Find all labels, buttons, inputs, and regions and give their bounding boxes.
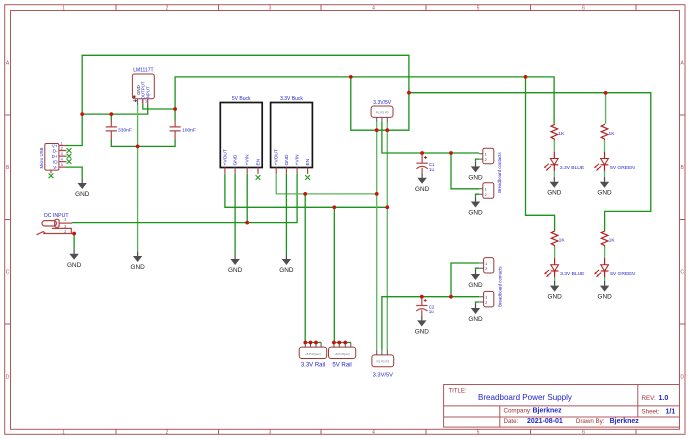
svg-text:+VOUT: +VOUT	[274, 149, 280, 165]
svg-text:2: 2	[166, 6, 169, 12]
wire contact 4 pin2 to ground	[476, 302, 480, 303]
svg-text:1/1: 1/1	[666, 408, 676, 415]
svg-text:D: D	[680, 375, 684, 381]
header 5V Rail	[329, 343, 356, 369]
svg-text:GND: GND	[284, 154, 290, 165]
junction (310.5,342.5)	[309, 341, 313, 345]
wire 3.3V rail bus	[305, 342, 321, 344]
connector breadboard contact 3	[479, 258, 494, 273]
junction (305.2,193.9)	[303, 192, 307, 196]
wire ground bus under caps	[111, 140, 175, 147]
header 3.3V Rail	[299, 343, 327, 369]
junction (605.6,92.9)	[604, 91, 608, 95]
svg-text:Date:: Date:	[504, 418, 519, 425]
LED 5V GREEN (bottom)	[594, 258, 635, 277]
wire 5V net y=92.7 to right and bottom-right LED column	[409, 93, 651, 231]
svg-text:+5 Pi P(pwr): +5 Pi P(pwr)	[334, 352, 350, 356]
svg-text:3.3V Buck: 3.3V Buck	[280, 96, 303, 102]
svg-text:2: 2	[485, 193, 487, 197]
wire bottom connector middle pin row	[382, 297, 479, 350]
junction (376.7,130.2)	[375, 128, 379, 132]
ground GND (contact 3)	[468, 269, 483, 289]
junction (451,296.7)	[449, 295, 453, 299]
svg-text:C: C	[6, 270, 10, 276]
svg-text:Breadboard contacts: Breadboard contacts	[497, 151, 502, 192]
junction (247.2,222.6)	[245, 221, 249, 225]
junction (350.8,76.9)	[349, 75, 353, 79]
svg-text:1: 1	[62, 430, 65, 436]
svg-text:V-: V-	[53, 165, 58, 170]
svg-text:1: 1	[485, 296, 487, 300]
wire LM1117T GND down	[137, 105, 139, 251]
svg-text:5V GREEN: 5V GREEN	[610, 165, 635, 171]
svg-text:2: 2	[141, 99, 143, 103]
svg-text:1: 1	[64, 218, 66, 222]
svg-text:4: 4	[372, 6, 375, 12]
svg-text:1: 1	[485, 188, 487, 192]
junction (376.7,193.9)	[375, 192, 379, 196]
svg-text:5V GREEN: 5V GREEN	[610, 271, 635, 277]
svg-text:GND: GND	[233, 154, 239, 165]
junction (175.1,109)	[173, 107, 177, 111]
svg-text:1u: 1u	[429, 167, 434, 172]
svg-text:LM1117T: LM1117T	[133, 68, 153, 74]
module 3.3V Buck	[271, 96, 313, 174]
svg-text:D: D	[6, 375, 10, 381]
no-connect X on 3.3V Buck EN	[305, 175, 310, 180]
connector Micro USB	[39, 141, 67, 174]
svg-text:2: 2	[485, 158, 487, 162]
connector breadboard contact 4	[479, 291, 494, 307]
ground GND (contact 2)	[468, 197, 483, 217]
svg-text:+VIN: +VIN	[295, 154, 301, 165]
wire 3.3V rail feed	[304, 194, 306, 343]
svg-text:1: 1	[62, 6, 65, 12]
no-connect X on USB ID	[67, 159, 72, 164]
svg-text:3.3V/5V: 3.3V/5V	[373, 100, 391, 106]
wire header middle pin to breadboard contacts row	[382, 122, 479, 153]
junction (422.1,153)	[420, 151, 424, 155]
ground GND (LED bottom left)	[547, 281, 562, 301]
ground GND (3.3V Buck)	[279, 254, 294, 274]
resistor 1K (bottom left)	[551, 230, 565, 246]
svg-text:Breadboard contacts: Breadboard contacts	[498, 266, 503, 307]
svg-text:P1 P2 P3: P1 P2 P3	[376, 111, 389, 115]
svg-text:5V Rail: 5V Rail	[332, 363, 351, 369]
wire header pin1 long vertical	[376, 122, 378, 350]
no-connect X on USB shield	[49, 173, 54, 178]
svg-text:3: 3	[269, 6, 272, 12]
regulator LM1117T	[132, 68, 154, 106]
header 3.3V/5V (bottom)	[372, 350, 394, 379]
svg-text:EN: EN	[305, 158, 311, 165]
no-connect X on 5V Buck EN	[256, 175, 261, 180]
connector DC INPUT barrel jack	[37, 213, 75, 235]
wire branch to top-right resistor	[605, 93, 607, 124]
ground GND (contact 1)	[468, 162, 483, 182]
junction (387.3,207.3)	[385, 205, 389, 209]
ground GND (contact 4)	[468, 303, 483, 323]
svg-text:ID: ID	[53, 159, 58, 164]
wire DC input to buck VIN pins	[72, 174, 297, 223]
svg-text:2021-08-01: 2021-08-01	[527, 418, 563, 425]
ground GND (DC input)	[67, 249, 82, 269]
label Breadboard contacts (top)	[497, 151, 502, 192]
svg-text:Breadboard Power Supply: Breadboard Power Supply	[478, 393, 572, 402]
svg-text:3.3V BLUE: 3.3V BLUE	[560, 271, 585, 277]
ground GND (LED top right)	[597, 177, 612, 197]
connector breadboard contact 2	[479, 183, 494, 199]
wire branch to bottom-left LED column	[526, 77, 555, 230]
ground GND (LED bottom right)	[597, 281, 612, 301]
ground GND (LM1117T)	[130, 251, 145, 271]
svg-text:2: 2	[166, 430, 169, 436]
capacitor C2 1u	[416, 297, 435, 316]
ground GND (LED top left)	[547, 177, 562, 197]
wire 5V buck VIN tap	[246, 174, 248, 223]
header 3.3V/5V (top)	[371, 100, 393, 122]
junction (387.3,130.2)	[385, 128, 389, 132]
svg-text:1K: 1K	[609, 131, 616, 137]
junction (451,153)	[449, 151, 453, 155]
wire resistor to LED gaps bottom pair	[555, 247, 605, 281]
junction (111.3,114.1)	[109, 112, 113, 116]
svg-text:Company:: Company:	[504, 408, 532, 415]
resistor 1K (top left)	[551, 124, 565, 140]
capacitor 100nF	[170, 121, 196, 140]
no-connect X on USB D-	[67, 148, 72, 153]
junction (525.5,76.9)	[524, 75, 528, 79]
svg-text:+VOUT: +VOUT	[222, 149, 228, 165]
svg-text:D-: D-	[53, 148, 58, 153]
svg-text:EN: EN	[256, 158, 262, 165]
wire contact 3 pin2 to ground	[476, 268, 480, 269]
svg-text:1u: 1u	[429, 309, 434, 314]
title block	[444, 385, 680, 428]
svg-text:1K: 1K	[609, 238, 616, 244]
junction (408.9,92.7)	[407, 91, 411, 95]
ground GND (C2)	[415, 316, 430, 336]
ground GND (5V Buck)	[228, 254, 243, 274]
svg-text:C: C	[680, 270, 684, 276]
wire output net top run to first LED column	[175, 77, 554, 124]
svg-text:Bjerknez: Bjerknez	[533, 408, 563, 415]
svg-text:330nF: 330nF	[118, 128, 132, 134]
ground GND (C1)	[415, 173, 430, 193]
svg-text:4: 4	[372, 430, 375, 436]
wire branch to contact 3	[451, 263, 479, 297]
svg-text:6: 6	[582, 430, 585, 436]
svg-text:REV:: REV:	[642, 395, 656, 402]
svg-text:1: 1	[485, 262, 487, 266]
svg-text:1.0: 1.0	[659, 395, 669, 402]
svg-text:5V Buck: 5V Buck	[232, 96, 251, 102]
wire 330nF top lead connection	[110, 114, 112, 120]
connector breadboard contact 1	[479, 148, 494, 164]
resistor 1K (top right)	[601, 124, 615, 140]
junction (345.3,342.5)	[343, 341, 347, 345]
no-connect X on USB D+	[67, 154, 72, 159]
LED 3.3V BLUE (bottom)	[544, 258, 585, 277]
svg-text:3: 3	[64, 225, 66, 229]
wire 5V buck GND	[234, 174, 236, 255]
svg-text:2: 2	[64, 230, 66, 234]
capacitor C1 1u	[416, 153, 435, 173]
wire 3.3V buck VOUT run	[276, 174, 377, 194]
svg-text:5: 5	[477, 6, 480, 12]
svg-text:Bjerknez: Bjerknez	[610, 418, 640, 425]
wire LM1117T OUTPUT elbow	[143, 105, 175, 110]
wire USB V- to ground	[66, 167, 83, 178]
svg-text:1K: 1K	[559, 238, 566, 244]
junction (421.8,296.7)	[420, 295, 424, 299]
wire resistor to LED gaps top pair	[554, 140, 604, 177]
module 5V Buck	[220, 96, 262, 174]
wire V+ input net: USB V+ up over to header right leg	[66, 55, 409, 145]
wire 5V buck VOUT run	[225, 174, 387, 207]
svg-text:3: 3	[269, 430, 272, 436]
svg-text:Sheet:: Sheet:	[642, 408, 660, 415]
junction (74.1,233.5)	[72, 232, 76, 236]
svg-text:3.3V/5V: 3.3V/5V	[373, 373, 393, 379]
label Breadboard contacts (bottom)	[498, 266, 503, 307]
svg-text:+5 Pi P(pwr): +5 Pi P(pwr)	[305, 352, 321, 356]
capacitor 330nF	[106, 121, 132, 140]
wire 5V rail feed	[333, 207, 335, 342]
wire branch to contact 2	[451, 153, 479, 189]
svg-text:100nF: 100nF	[182, 128, 196, 134]
svg-text:3: 3	[145, 99, 147, 103]
svg-text:P1 P2 P3: P1 P2 P3	[376, 360, 389, 364]
wire 5V rail bus	[334, 342, 351, 344]
junction (316,342.5)	[314, 341, 318, 345]
wire 3.3V buck GND	[285, 174, 287, 255]
junction (137.6,146.4)	[136, 145, 140, 149]
svg-text:5: 5	[477, 430, 480, 436]
svg-text:Micro USB: Micro USB	[39, 147, 44, 168]
wire header pin3 long vertical	[386, 122, 388, 350]
junction (82.2,114.1)	[80, 112, 84, 116]
svg-text:6: 6	[582, 6, 585, 12]
junction (333.9,342.5)	[332, 341, 336, 345]
LED 5V GREEN (top)	[594, 152, 635, 171]
ground GND (Micro USB)	[75, 178, 90, 198]
svg-text:2: 2	[485, 301, 487, 305]
wire DC jack sleeve to ground	[73, 234, 75, 250]
svg-text:3.3V Rail: 3.3V Rail	[301, 363, 325, 369]
svg-text:2: 2	[485, 267, 487, 271]
wire contact 2 pin2 to ground	[476, 194, 480, 197]
svg-text:1: 1	[485, 153, 487, 157]
wire LM1117T INPUT elbow to USB V+	[82, 105, 148, 115]
svg-text:INPUT: INPUT	[146, 86, 151, 99]
svg-text:+VIN: +VIN	[245, 154, 251, 165]
wire contact 1 pin2 to ground	[476, 159, 480, 162]
svg-text:TITLE:: TITLE:	[449, 388, 467, 394]
LED 3.3V BLUE (top)	[544, 152, 585, 171]
svg-text:Drawn By:: Drawn By:	[576, 418, 605, 425]
junction (305.3,342.5)	[303, 341, 307, 345]
svg-text:D+: D+	[52, 154, 58, 159]
resistor 1K (bottom right)	[601, 230, 615, 246]
junction (339.3,342.5)	[337, 341, 341, 345]
svg-text:1K: 1K	[558, 131, 565, 137]
junction (334.3,207.3)	[332, 205, 336, 209]
svg-text:3.3V BLUE: 3.3V BLUE	[560, 165, 585, 171]
